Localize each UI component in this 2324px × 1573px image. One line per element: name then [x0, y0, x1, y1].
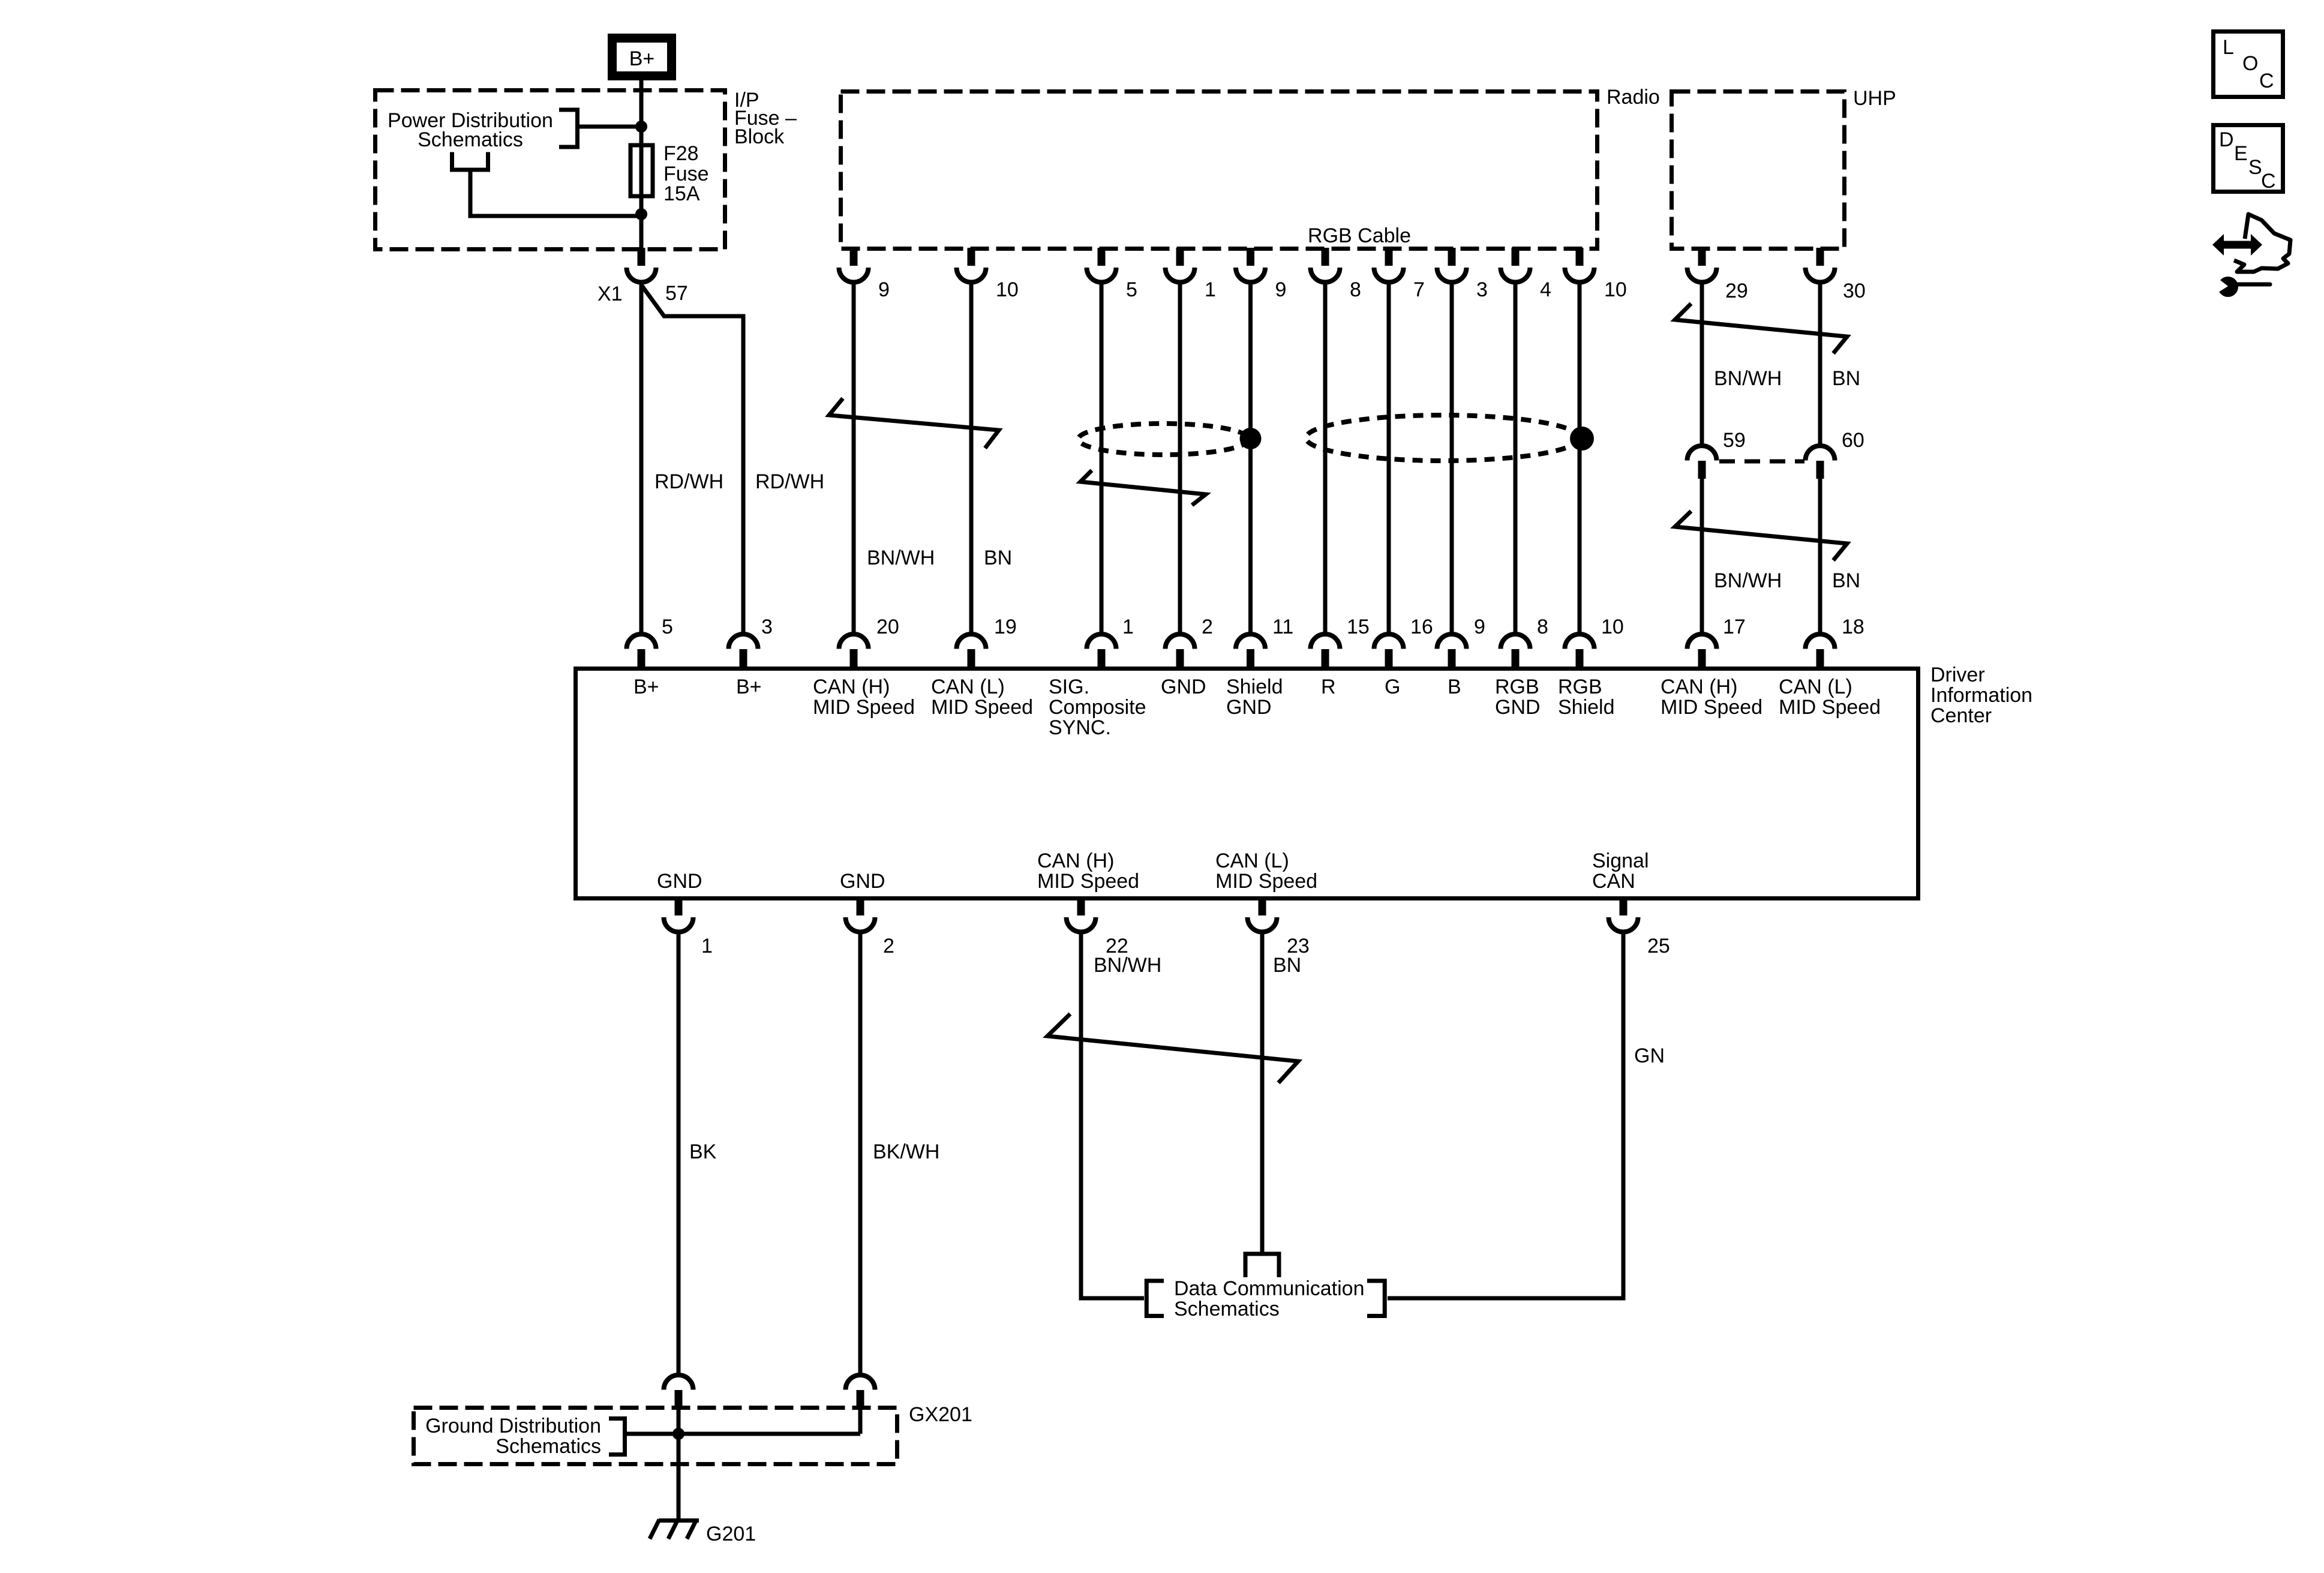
svg-text:19: 19: [994, 616, 1017, 638]
service icon double arrow: [2212, 234, 2262, 256]
Radio connector pin 7: [1385, 248, 1393, 266]
wire Radio pin 5 to DIC pin 1: [1100, 282, 1104, 635]
svg-text:G: G: [1385, 676, 1400, 698]
inline connector 60: [1806, 446, 1835, 461]
bracket right Data Communication: [1367, 1281, 1385, 1316]
DIC bottom connector pin 23: [1259, 897, 1266, 915]
svg-text:F28: F28: [663, 142, 699, 165]
svg-text:17: 17: [1723, 616, 1746, 638]
DIC bottom connector pin 22: [1077, 897, 1085, 915]
twisted pair symbol CAN wires 20/19: [829, 398, 999, 448]
svg-text:BK: BK: [689, 1140, 717, 1163]
svg-text:2: 2: [1202, 616, 1213, 638]
wire Radio pin 10 to DIC pin 10: [1578, 282, 1582, 635]
svg-text:1: 1: [1205, 278, 1216, 301]
svg-text:7: 7: [1413, 278, 1425, 301]
svg-text:E: E: [2234, 142, 2248, 165]
svg-text:10: 10: [996, 278, 1019, 301]
svg-text:BN: BN: [984, 547, 1012, 569]
svg-text:Radio: Radio: [1607, 86, 1660, 109]
svg-text:X1: X1: [597, 283, 623, 305]
svg-text:Composite: Composite: [1049, 696, 1146, 719]
DIC connector pin 18: [1806, 634, 1835, 649]
wire BN DIC pin 23: [1260, 932, 1265, 1254]
DIC connector pin 1: [1087, 634, 1116, 649]
twisted pair symbol CAN wires 22/23: [1047, 1014, 1298, 1083]
svg-text:S: S: [2248, 156, 2262, 179]
svg-text:BN: BN: [1273, 954, 1301, 977]
B+ battery feed symbol: [608, 34, 676, 80]
DIC bottom connector pin 2: [857, 897, 864, 915]
GX201 connector wire 2: [846, 1375, 875, 1389]
svg-text:Schematics: Schematics: [496, 1435, 601, 1458]
wire UHP 29 to connector 59: [1700, 282, 1704, 446]
GX201 connector wire 1: [664, 1375, 693, 1390]
wire BK DIC pin 1 to GX201: [677, 932, 681, 1376]
wire BN/WH DIC pin 22 to Data Communication: [1081, 932, 1144, 1298]
I/P Fuse Block dashed box: [376, 91, 725, 250]
shield ellipse around RGB wires: [1306, 415, 1580, 461]
svg-text:BN/WH: BN/WH: [1714, 367, 1782, 390]
svg-text:GND: GND: [1495, 696, 1541, 719]
node junction below fuse: [635, 208, 647, 220]
svg-text:18: 18: [1842, 616, 1864, 638]
svg-text:9: 9: [1474, 616, 1485, 638]
bracket to Ground Distribution Schematics: [609, 1419, 625, 1455]
DIC connector pin 8: [1501, 634, 1530, 649]
svg-text:BN/WH: BN/WH: [1714, 569, 1782, 592]
svg-text:SYNC.: SYNC.: [1049, 716, 1111, 739]
wire Radio pin 8 to DIC pin 15: [1323, 282, 1328, 635]
wire Radio pin 9 to DIC pin 20: [852, 282, 856, 635]
svg-text:8: 8: [1537, 616, 1548, 638]
svg-text:B: B: [1448, 676, 1461, 698]
Radio connector pin 9: [850, 248, 858, 266]
UHP connector pin 30: [1816, 248, 1824, 266]
Radio connector pin 3: [1448, 248, 1456, 266]
wire BK/WH DIC pin 2 to GX201: [858, 932, 863, 1376]
Radio connector pin 10: [1576, 248, 1584, 266]
svg-text:9: 9: [878, 278, 890, 301]
inline connector 59: [1688, 446, 1717, 461]
wire Radio pin 7 to DIC pin 16: [1387, 282, 1391, 635]
svg-text:Driver: Driver: [1930, 664, 1985, 686]
svg-text:GND: GND: [1161, 676, 1206, 698]
Radio dashed box: [841, 92, 1598, 249]
wire connector 60 to DIC pin 18: [1818, 477, 1822, 635]
DIC connector pin 15: [1311, 634, 1340, 649]
svg-text:15A: 15A: [663, 182, 700, 205]
svg-text:Schematics: Schematics: [1174, 1298, 1280, 1320]
DIC connector pin 11: [1236, 634, 1265, 649]
DIC connector pin 10: [1565, 634, 1595, 649]
Radio connector pin 1: [1176, 248, 1184, 266]
shield drain dot on wire 11: [1240, 428, 1262, 449]
svg-text:CAN (L): CAN (L): [1779, 676, 1852, 698]
wire ground bus: [624, 1432, 860, 1436]
wire bracket to node: [577, 125, 642, 129]
svg-text:RD/WH: RD/WH: [654, 470, 723, 493]
DIC connector pin 17: [1688, 634, 1717, 649]
wire RD/WH to DIC pin 5: [639, 282, 644, 635]
DIC connector pin 16: [1374, 634, 1404, 649]
svg-text:B+: B+: [629, 47, 655, 70]
svg-text:RGB: RGB: [1495, 676, 1539, 698]
svg-text:15: 15: [1347, 616, 1370, 638]
service icon wrench: [2218, 277, 2238, 297]
svg-text:G201: G201: [706, 1523, 756, 1545]
node junction ground bus: [672, 1428, 684, 1440]
bracket U below Power Distribution Schematics: [452, 152, 488, 170]
connector tie dashed line 59-60: [1719, 460, 1804, 464]
wire GN DIC pin 25 to Data Communication: [1388, 932, 1623, 1298]
svg-text:2: 2: [883, 935, 894, 957]
svg-text:SIG.: SIG.: [1049, 676, 1089, 698]
svg-text:L: L: [2223, 36, 2234, 59]
svg-text:Shield: Shield: [1226, 676, 1283, 698]
svg-text:Information: Information: [1930, 684, 2032, 707]
wire connector 59 to DIC pin 17: [1700, 477, 1704, 635]
svg-text:57: 57: [665, 282, 688, 305]
shield drain dot on wire 10: [1570, 427, 1594, 451]
svg-text:10: 10: [1601, 616, 1624, 638]
svg-text:30: 30: [1843, 280, 1866, 302]
svg-text:RGB Cable: RGB Cable: [1308, 224, 1411, 247]
svg-text:5: 5: [662, 616, 673, 638]
svg-text:60: 60: [1842, 429, 1864, 452]
svg-text:MID Speed: MID Speed: [813, 696, 915, 719]
wire 1 drop inside GX201 to G201: [677, 1407, 681, 1518]
DIC connector pin 2: [1166, 634, 1195, 649]
bracket left Data Communication: [1146, 1281, 1164, 1316]
svg-text:GND: GND: [657, 870, 702, 893]
svg-text:GN: GN: [1634, 1044, 1665, 1067]
svg-text:Ground Distribution: Ground Distribution: [425, 1415, 601, 1437]
ground symbol G201: [659, 1518, 699, 1523]
svg-text:MID Speed: MID Speed: [1779, 696, 1881, 719]
svg-text:BN: BN: [1832, 569, 1860, 592]
DIC connector pin 19: [957, 634, 986, 649]
wire B+ feed to fuse: [639, 80, 644, 248]
wire Radio pin 3 to DIC pin 9: [1450, 282, 1454, 635]
Radio connector pin 4: [1512, 248, 1520, 266]
svg-text:CAN (L): CAN (L): [1215, 849, 1289, 872]
svg-text:1: 1: [701, 935, 713, 957]
wire UHP 30 to connector 60: [1818, 282, 1822, 446]
svg-text:C: C: [2259, 70, 2274, 92]
svg-text:3: 3: [761, 616, 773, 638]
wire Radio pin 1 to DIC pin 2: [1178, 282, 1182, 635]
DIC connector pin 5: [627, 634, 656, 649]
svg-text:Schematics: Schematics: [418, 128, 523, 151]
svg-text:CAN (H): CAN (H): [1661, 676, 1737, 698]
wire Radio pin 4 to DIC pin 8: [1514, 282, 1518, 635]
wire branch RD/WH to DIC pin 3: [641, 285, 743, 635]
svg-text:BN/WH: BN/WH: [1094, 954, 1161, 977]
svg-text:B+: B+: [633, 676, 659, 698]
svg-text:MID Speed: MID Speed: [1661, 696, 1762, 719]
Radio connector pin 5: [1098, 248, 1106, 266]
svg-text:11: 11: [1272, 616, 1293, 638]
svg-text:10: 10: [1604, 278, 1627, 301]
svg-text:CAN: CAN: [1592, 870, 1635, 893]
svg-text:C: C: [2261, 170, 2276, 193]
Driver Information Center box: [576, 669, 1918, 899]
svg-text:UHP: UHP: [1853, 87, 1896, 110]
svg-text:GX201: GX201: [909, 1403, 972, 1426]
DIC bottom connector pin 1: [675, 897, 683, 915]
svg-text:5: 5: [1126, 278, 1137, 301]
svg-text:Signal: Signal: [1592, 849, 1649, 872]
wire 2 drop inside GX201: [858, 1407, 863, 1434]
svg-text:BN: BN: [1832, 367, 1860, 390]
svg-text:Center: Center: [1930, 704, 1992, 727]
twisted pair symbol UHP lower: [1675, 511, 1847, 560]
Radio connector pin 8: [1322, 248, 1329, 266]
svg-text:MID Speed: MID Speed: [931, 696, 1033, 719]
LOC reference box: [2214, 32, 2283, 97]
Radio connector pin 9: [1247, 248, 1254, 266]
DIC connector pin 20: [839, 634, 869, 649]
svg-text:3: 3: [1476, 278, 1488, 301]
svg-text:Block: Block: [734, 125, 785, 148]
svg-text:29: 29: [1725, 280, 1748, 302]
svg-text:25: 25: [1647, 935, 1670, 957]
Radio connector pin 10: [968, 248, 975, 266]
svg-text:59: 59: [1723, 429, 1746, 452]
bracket to Power Distribution Schematics: [559, 110, 578, 147]
svg-text:CAN (H): CAN (H): [1037, 849, 1114, 872]
bracket end of wire BN: [1245, 1254, 1279, 1277]
svg-text:BK/WH: BK/WH: [873, 1140, 939, 1163]
svg-text:4: 4: [1540, 278, 1551, 301]
UHP dashed box: [1672, 92, 1845, 249]
UHP connector pin 29: [1698, 248, 1706, 266]
svg-text:9: 9: [1275, 278, 1287, 301]
twisted pair symbol UHP upper: [1675, 304, 1847, 353]
svg-text:1: 1: [1122, 616, 1134, 638]
DIC bottom connector pin 25: [1620, 897, 1628, 915]
svg-text:8: 8: [1350, 278, 1361, 301]
twisted pair symbol SIG/GND wires: [1080, 470, 1206, 505]
svg-text:GND: GND: [1226, 696, 1272, 719]
svg-text:O: O: [2242, 52, 2258, 75]
svg-text:CAN (H): CAN (H): [813, 676, 890, 698]
svg-text:MID Speed: MID Speed: [1215, 870, 1317, 893]
node junction above fuse: [635, 121, 647, 133]
svg-text:CAN (L): CAN (L): [931, 676, 1005, 698]
svg-text:Shield: Shield: [1558, 696, 1615, 719]
service icon panel outline: [2234, 214, 2290, 272]
svg-text:MID Speed: MID Speed: [1037, 870, 1139, 893]
wire Radio pin 10 to DIC pin 19: [969, 282, 974, 635]
svg-text:20: 20: [876, 616, 899, 638]
svg-text:GND: GND: [840, 870, 885, 893]
DIC connector pin 9: [1437, 634, 1467, 649]
DIC connector pin 3: [729, 634, 758, 649]
svg-text:D: D: [2219, 128, 2234, 151]
svg-text:RGB: RGB: [1558, 676, 1602, 698]
connector X1 pin 57: [638, 248, 645, 266]
svg-text:BN/WH: BN/WH: [867, 547, 935, 569]
GX201 dashed box: [414, 1408, 897, 1464]
wire Radio pin 9 to DIC pin 11: [1248, 282, 1253, 635]
svg-text:B+: B+: [736, 676, 762, 698]
wire U-bracket to node below fuse: [470, 172, 642, 217]
svg-text:R: R: [1321, 676, 1336, 698]
svg-text:16: 16: [1410, 616, 1433, 638]
svg-text:Data Communication: Data Communication: [1174, 1277, 1364, 1300]
svg-text:RD/WH: RD/WH: [755, 470, 824, 493]
shield ellipse around SIG/GND: [1079, 424, 1249, 455]
DESC reference box: [2214, 125, 2283, 192]
fuse F28 15A: [630, 145, 653, 196]
